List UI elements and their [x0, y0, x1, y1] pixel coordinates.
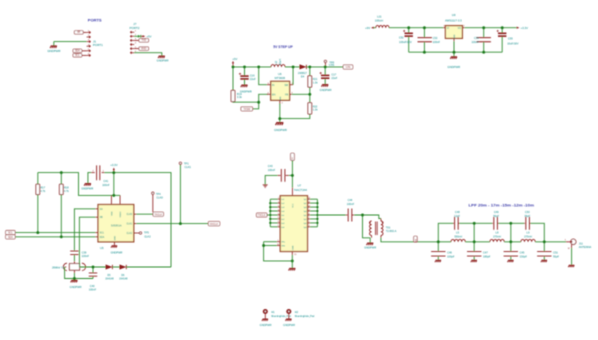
svg-text:GNDPWR: GNDPWR	[320, 88, 332, 92]
svg-text:MountingHole_Pad: MountingHole_Pad	[271, 314, 291, 318]
svg-text:TXD: TXD	[141, 39, 146, 42]
svg-text:C41: C41	[103, 179, 108, 183]
svg-text:100nF: 100nF	[89, 287, 97, 291]
svg-text:GNDPWR: GNDPWR	[81, 187, 93, 191]
svg-text:XA: XA	[100, 208, 104, 211]
svg-text:11: 11	[278, 213, 280, 215]
svg-text:V.PA: V.PA	[345, 66, 350, 69]
svg-text:100nF: 100nF	[102, 183, 110, 187]
svg-text:19: 19	[277, 244, 279, 246]
svg-text:GNDPWR: GNDPWR	[240, 89, 252, 93]
svg-text:PORT2: PORT2	[130, 26, 140, 30]
svg-text:2y3: 2y3	[303, 223, 306, 225]
svg-text:R18: R18	[64, 185, 69, 189]
svg-text:VDD: VDD	[111, 211, 113, 216]
svg-text:C43: C43	[268, 164, 273, 168]
svg-text:GNDPWR: GNDPWR	[157, 59, 169, 63]
svg-text:6: 6	[278, 205, 279, 207]
svg-text:1: 1	[277, 240, 278, 242]
svg-text:C17: C17	[331, 73, 336, 77]
svg-text:39pF: 39pF	[524, 214, 530, 218]
svg-text:SI5351A: SI5351A	[111, 224, 122, 228]
svg-text:RF: RF	[77, 31, 81, 34]
svg-text:1y3: 1y3	[303, 207, 306, 209]
svg-text:LPF 20m - 17m -15m -12m -10m: LPF 20m - 17m -15m -12m -10m	[469, 203, 535, 207]
svg-text:15: 15	[278, 221, 280, 223]
svg-text:10uF/16V: 10uF/16V	[507, 42, 519, 46]
svg-text:2y4: 2y4	[303, 227, 306, 229]
svg-text:56pF: 56pF	[553, 254, 559, 258]
svg-text:12: 12	[308, 209, 310, 211]
svg-text:+9V: +9V	[365, 26, 370, 30]
svg-text:GNDPWR: GNDPWR	[274, 128, 287, 132]
svg-text:SCL: SCL	[75, 54, 80, 57]
svg-text:XB: XB	[100, 217, 104, 219]
svg-text:GND: GND	[114, 235, 116, 240]
svg-text:2a1: 2a1	[281, 215, 284, 217]
svg-text:GNDPWR: GNDPWR	[111, 251, 123, 255]
svg-text:2y1: 2y1	[303, 215, 306, 217]
svg-text:U8: U8	[452, 13, 456, 17]
svg-text:3: 3	[308, 225, 309, 227]
svg-text:C44: C44	[348, 198, 353, 202]
svg-text:GNDPWR: GNDPWR	[447, 65, 460, 69]
svg-text:2a3: 2a3	[281, 223, 284, 225]
svg-text:GNDPWR: GNDPWR	[47, 49, 60, 53]
svg-text:2a4: 2a4	[281, 227, 284, 229]
svg-text:C47: C47	[483, 250, 488, 254]
svg-text:C45: C45	[520, 250, 525, 254]
svg-text:OEb: OEb	[281, 245, 285, 247]
svg-text:T01: T01	[386, 225, 391, 229]
svg-text:T2.863.A: T2.863.A	[386, 229, 397, 233]
svg-text:12pF: 12pF	[454, 214, 460, 218]
svg-text:R22: R22	[313, 104, 318, 108]
svg-text:1y2: 1y2	[303, 203, 306, 205]
svg-text:13: 13	[278, 217, 280, 219]
svg-text:ANTENNA: ANTENNA	[579, 245, 592, 249]
svg-text:1N5817: 1N5817	[298, 71, 308, 75]
svg-text:TXCLK: TXCLK	[154, 213, 162, 216]
svg-text:9: 9	[308, 213, 309, 215]
svg-text:180pF: 180pF	[483, 254, 491, 258]
svg-text:1a1: 1a1	[281, 199, 284, 201]
svg-text:MountingHole_Pad: MountingHole_Pad	[295, 314, 315, 318]
svg-text:100uF/16V: 100uF/16V	[399, 40, 412, 44]
svg-text:1N4148: 1N4148	[105, 277, 114, 280]
svg-text:1a4: 1a4	[281, 211, 284, 213]
svg-text:C40: C40	[90, 284, 95, 288]
svg-text:C39: C39	[82, 251, 87, 255]
svg-text:V.PA: V.PA	[329, 63, 335, 67]
svg-text:MT3608: MT3608	[275, 76, 286, 80]
svg-text:74ACT244: 74ACT244	[294, 188, 308, 192]
svg-text:1a2: 1a2	[281, 203, 284, 205]
svg-text:26MHz Y2: 26MHz Y2	[52, 266, 65, 270]
svg-text:CLK1: CLK1	[185, 165, 192, 169]
svg-text:150pF: 150pF	[520, 254, 528, 258]
svg-text:SDA: SDA	[75, 50, 80, 53]
svg-text:R17: R17	[40, 185, 45, 189]
svg-text:TP5: TP5	[144, 230, 149, 234]
svg-text:+3.3V: +3.3V	[110, 163, 118, 167]
svg-text:100uH: 100uH	[375, 18, 383, 22]
svg-text:VI: VI	[447, 28, 450, 30]
svg-text:SCL: SCL	[100, 233, 105, 235]
svg-text:8: 8	[278, 209, 279, 211]
svg-text:1N4148: 1N4148	[119, 277, 128, 280]
svg-text:C46: C46	[447, 250, 452, 254]
svg-text:CLK1: CLK1	[126, 224, 132, 226]
svg-text:U5: U5	[100, 246, 104, 250]
svg-text:C49: C49	[494, 210, 499, 214]
svg-text:SDA: SDA	[8, 236, 13, 239]
svg-text:7: 7	[308, 217, 309, 219]
svg-text:5: 5	[308, 221, 309, 223]
svg-text:22uF: 22uF	[331, 76, 337, 80]
svg-text:4.7k: 4.7k	[40, 189, 46, 193]
svg-text:CLK0: CLK0	[156, 195, 163, 199]
svg-text:GND: GND	[280, 96, 282, 101]
svg-text:1a3: 1a3	[281, 207, 284, 209]
svg-text:L12: L12	[275, 60, 278, 65]
svg-text:EN: EN	[272, 93, 276, 96]
svg-text:VO: VO	[458, 28, 462, 30]
svg-text:CLK0: CLK0	[126, 214, 132, 216]
svg-text:17: 17	[278, 225, 280, 227]
svg-text:2: 2	[278, 198, 279, 200]
svg-text:C52: C52	[399, 36, 404, 40]
svg-text:RXD: RXD	[141, 47, 146, 50]
svg-text:GND: GND	[454, 34, 456, 39]
svg-text:TXCLK: TXCLK	[258, 214, 266, 217]
svg-text:+3.3V: +3.3V	[521, 26, 529, 30]
svg-text:VCC: VCC	[292, 203, 294, 208]
svg-text:1y1: 1y1	[303, 199, 306, 201]
svg-text:56pF: 56pF	[493, 214, 499, 218]
svg-text:100pF: 100pF	[447, 254, 455, 258]
svg-text:R21: R21	[313, 77, 318, 81]
svg-text:PORTS: PORTS	[88, 18, 102, 23]
svg-text:+5V: +5V	[146, 34, 151, 38]
svg-text:3.3k: 3.3k	[237, 95, 243, 99]
svg-text:AMS1117-3.3: AMS1117-3.3	[445, 19, 462, 23]
svg-text:C53: C53	[433, 36, 438, 40]
svg-text:4: 4	[278, 201, 279, 203]
svg-text:C48: C48	[455, 210, 460, 214]
svg-text:100nF: 100nF	[268, 168, 276, 172]
svg-text:1y4: 1y4	[303, 211, 306, 213]
svg-text:PORT1: PORT1	[93, 43, 103, 47]
svg-text:GNDPWR: GNDPWR	[283, 323, 295, 327]
svg-text:D4: D4	[301, 75, 305, 79]
svg-text:C50: C50	[525, 210, 530, 214]
svg-text:SDA: SDA	[100, 236, 105, 239]
svg-text:C54: C54	[474, 36, 479, 40]
svg-text:IN: IN	[272, 84, 275, 87]
svg-text:550nH: 550nH	[454, 235, 462, 239]
svg-text:C16: C16	[250, 73, 255, 77]
svg-text:TP4: TP4	[156, 192, 161, 196]
svg-text:SCL: SCL	[8, 232, 13, 235]
svg-text:10: 10	[294, 254, 296, 256]
svg-text:J11: J11	[579, 242, 584, 246]
svg-text:270nH: 270nH	[493, 235, 501, 239]
svg-text:100nF: 100nF	[347, 202, 355, 206]
svg-text:4.7k: 4.7k	[64, 189, 70, 193]
svg-text:VDDO: VDDO	[120, 211, 122, 217]
svg-text:22uH: 22uH	[279, 59, 282, 65]
svg-text:GND: GND	[292, 245, 294, 250]
svg-text:5V STEP UP: 5V STEP UP	[273, 45, 293, 49]
svg-text:16: 16	[308, 201, 310, 203]
svg-text:CLK2: CLK2	[126, 233, 132, 235]
svg-text:CLK2: CLK2	[144, 234, 151, 238]
svg-text:TXSW: TXSW	[243, 108, 251, 111]
svg-text:C55: C55	[508, 37, 513, 41]
svg-text:2a2: 2a2	[281, 219, 284, 221]
svg-text:RXCLK: RXCLK	[210, 223, 218, 226]
svg-text:270nH: 270nH	[524, 235, 532, 239]
svg-text:14: 14	[308, 205, 310, 207]
svg-text:100nF: 100nF	[433, 40, 441, 44]
svg-text:GNDPWR: GNDPWR	[364, 245, 376, 249]
svg-text:1.2k: 1.2k	[313, 80, 319, 84]
svg-text:FB: FB	[285, 93, 288, 96]
svg-text:GNDPWR: GNDPWR	[260, 323, 272, 327]
svg-text:100nF: 100nF	[82, 254, 90, 258]
svg-text:C51: C51	[553, 250, 558, 254]
svg-text:22uF: 22uF	[250, 77, 256, 81]
svg-text:TP1: TP1	[184, 161, 189, 165]
svg-text:1.2k: 1.2k	[313, 108, 319, 112]
svg-text:GNDPWR: GNDPWR	[70, 285, 82, 289]
svg-text:2y2: 2y2	[303, 219, 306, 221]
svg-text:100nF: 100nF	[471, 40, 479, 44]
svg-text:+5V: +5V	[232, 57, 237, 61]
svg-text:18: 18	[308, 198, 310, 200]
